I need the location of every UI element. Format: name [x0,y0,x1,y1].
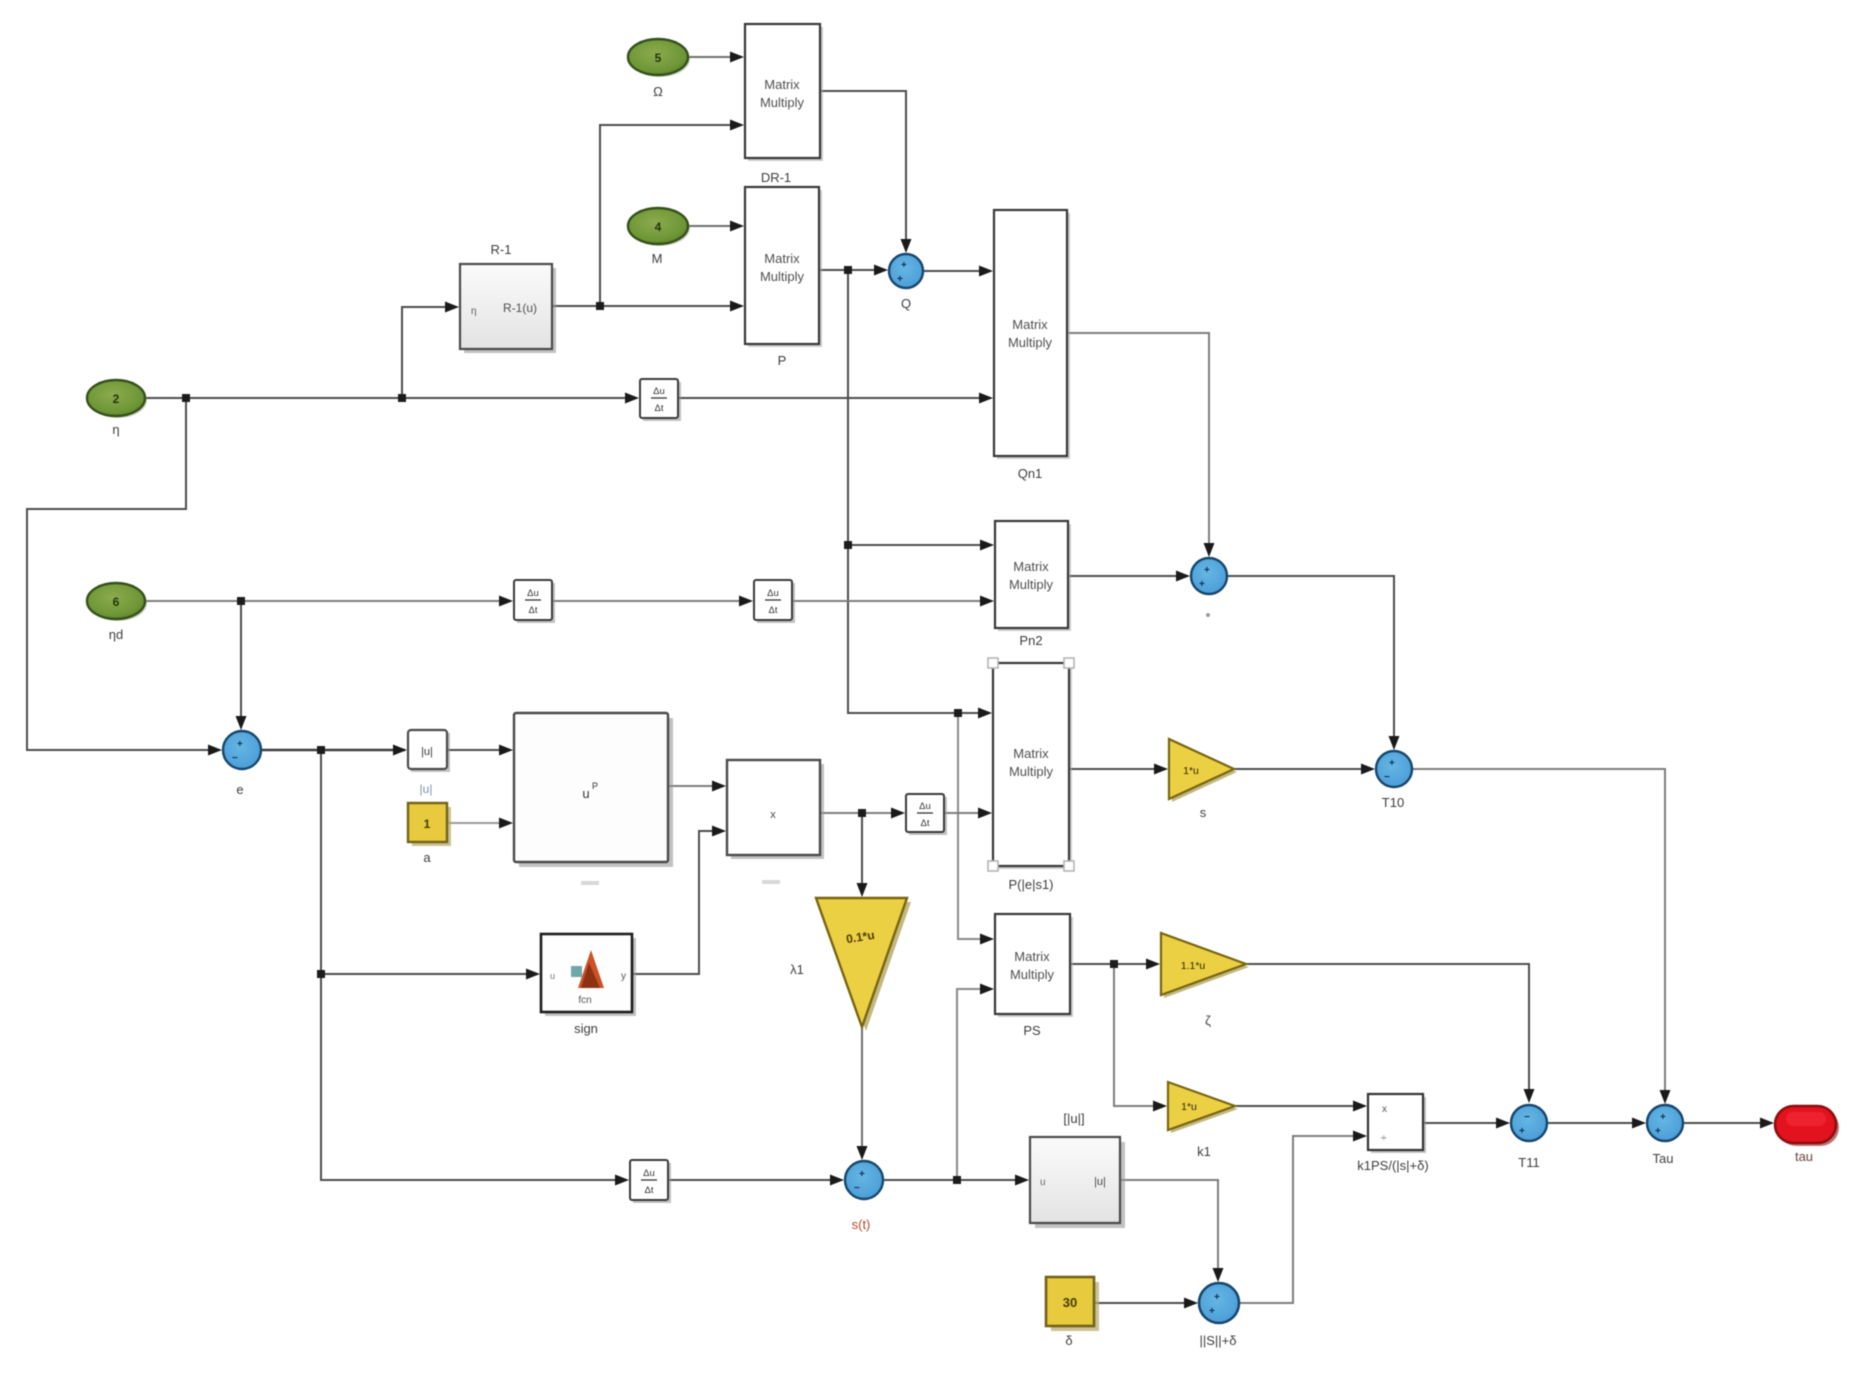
junction on etad line at branch to sum e [237,597,245,605]
svg-text:4: 4 [655,220,662,234]
svg-text:M: M [652,251,663,266]
junction at Pn2 in1 branch [844,541,852,549]
wire derivative to sum s(t) [668,1179,842,1181]
wire branch to Pn2 in1 [848,544,992,546]
svg-text:+: + [901,260,907,271]
svg-text:Δt: Δt [645,1185,654,1196]
sum T10 [1376,751,1412,810]
svg-text:Δt: Δt [655,403,664,414]
wire constant a to power block in2 [447,822,511,824]
svg-text:s(t): s(t) [852,1217,871,1232]
wire Pn2 output to small sum [1068,575,1188,577]
block constant a = 1 [408,803,451,865]
block derivative on e line [630,1160,671,1203]
svg-text:+: + [1519,1126,1525,1137]
wire eta derivative to Qn1 in2 [678,397,991,399]
junction on eta line at branch to sum e [182,394,190,402]
sum s(t) [845,1161,883,1232]
small sum after Pn2 [1191,558,1227,617]
wire gain s output to T10 [1234,768,1373,770]
block Pn2 matrix multiply [995,521,1071,648]
wire P output to sum Q [820,269,886,271]
svg-text:Multiply: Multiply [1010,967,1055,982]
wire product output to derivative [820,812,903,814]
svg-text:k1PS/(|s|+δ): k1PS/(|s|+δ) [1357,1158,1428,1173]
wire sum T11 output to sum Tau [1547,1122,1644,1124]
svg-text:Δu: Δu [527,588,539,599]
svg-text:+: + [1214,1292,1220,1303]
block derivative on eta line [640,379,681,421]
input port etad (6) [87,583,147,642]
svg-text:2: 2 [113,392,120,406]
junction at sign input branch [317,970,325,978]
wire sum Q output to Qn1 in1 [923,270,991,272]
wire sign output up to product in2 [632,831,724,974]
block P matrix multiply [745,187,822,368]
wire e branch down to derivative before s(t) [321,750,627,1180]
svg-text:fcn: fcn [578,995,591,1006]
block derivative etad 1 [514,580,555,623]
svg-text:PS: PS [1023,1023,1041,1038]
svg-text:s: s [1200,805,1207,820]
wire PS branch down to gain k1 [1114,964,1165,1106]
input port eta (2) [87,380,147,437]
wire sum Tau output to outport tau [1683,1122,1772,1124]
block product [727,760,824,884]
svg-text:1*u: 1*u [1181,1101,1197,1113]
wire R-1 output branch up to DR-1 in2 [600,125,742,306]
sum T11 [1511,1105,1547,1170]
svg-text:sign: sign [574,1021,598,1036]
wire derivative to P(|e|s1) in2 [944,812,990,814]
svg-text:−: − [1524,1112,1530,1123]
output port tau [1775,1106,1839,1164]
junction at PS in1 branch [954,709,962,717]
wire PS output to gain zeta [1070,963,1158,965]
svg-text:|u|: |u| [1094,1176,1106,1188]
svg-text:Δt: Δt [529,605,538,616]
junction on R-1 output at branch to DR-1 [596,302,604,310]
svg-text:+: + [1660,1112,1666,1123]
svg-text:+: + [1209,1306,1215,1317]
wire T10 output down to sum Tau top [1412,769,1665,1102]
svg-text:||S||+δ: ||S||+δ [1199,1333,1236,1348]
block PS matrix multiply [995,914,1073,1038]
svg-text:tau: tau [1795,1149,1813,1164]
svg-text:Matrix: Matrix [764,77,800,92]
svg-text:+: + [237,739,243,750]
wire sum s(t) output to abs subsystem [883,1179,1027,1181]
svg-text:P: P [778,353,787,368]
wire sum S+delta output up to divide in2 [1239,1136,1365,1303]
svg-text:R-1: R-1 [491,242,512,257]
svg-text:Matrix: Matrix [1013,559,1049,574]
input port Omega (5) [628,39,690,99]
svg-text:1*u: 1*u [1183,765,1199,777]
sum e [223,731,261,797]
svg-text:÷: ÷ [1381,1133,1387,1144]
svg-text:1: 1 [424,817,431,831]
svg-text:Δt: Δt [769,605,778,616]
svg-text:ηd: ηd [109,627,123,642]
svg-text:u: u [582,786,589,801]
svg-text:Δu: Δu [653,386,665,397]
svg-text:+: + [897,274,903,285]
block derivative etad 2 [754,580,795,623]
block constant delta = 30 [1046,1277,1099,1348]
wire etad branch down to sum e top [240,601,242,728]
gain zeta (1.1*u) [1161,933,1249,1028]
gain k1 (1*u) [1168,1082,1238,1159]
sum Q [889,254,923,311]
wire Qn1 output down to small sum top [1067,333,1209,555]
wire e branch down to sign input [321,973,538,975]
svg-text:+: + [1655,1126,1661,1137]
svg-text:e: e [236,782,243,797]
svg-text:Multiply: Multiply [1009,764,1054,779]
wire abs output to power block in1 [447,749,511,751]
svg-text:1.1*u: 1.1*u [1181,960,1206,972]
svg-text:u: u [1040,1177,1046,1188]
block DR-1 matrix multiply [745,24,823,185]
svg-text:Δt: Δt [921,818,930,829]
block abs subsystem [|u|] [1030,1111,1125,1228]
wire etad derivative2 to Pn2 in2 [792,600,992,602]
svg-text:P(|e|s1): P(|e|s1) [1008,877,1053,892]
junction on product output at lambda1 branch [858,809,866,817]
svg-text:−: − [854,1183,860,1194]
svg-text:Multiply: Multiply [1008,335,1053,350]
svg-text:T10: T10 [1382,795,1404,810]
svg-text:Δu: Δu [919,801,931,812]
block sign MATLAB function [541,934,636,1036]
svg-text:u: u [550,971,555,981]
block abs |u| [408,730,450,796]
svg-text:η: η [471,306,477,317]
wire etad main run to first derivative [145,600,511,602]
svg-text:Pn2: Pn2 [1019,633,1042,648]
wire junction down to gain lambda1 [861,813,863,895]
svg-text:5: 5 [655,51,662,65]
sum Tau [1647,1105,1683,1166]
svg-text:Q: Q [901,296,911,311]
junction on e output at down branch [317,746,325,754]
svg-text:|u|: |u| [420,782,433,796]
wire divide output to sum T11 [1423,1122,1508,1124]
svg-text:|u|: |u| [421,746,433,758]
svg-text:λ1: λ1 [790,962,804,977]
block Qn1 matrix multiply [994,210,1070,481]
junction on s(t) output at PS in2 branch [953,1176,961,1184]
svg-text:Matrix: Matrix [1013,746,1049,761]
svg-text:η: η [112,422,119,437]
wire eta main run to derivative [145,397,637,399]
svg-text:Qn1: Qn1 [1018,466,1043,481]
sum ||S||+delta [1199,1283,1239,1348]
svg-text:+: + [1199,579,1205,590]
wire small sum output down to T10 top [1227,576,1394,748]
svg-text:DR-1: DR-1 [761,170,791,185]
svg-text:+: + [859,1169,865,1180]
junction on PS output at k1 branch [1110,960,1118,968]
wire Omega to DR-1 in1 [688,56,742,58]
svg-text:Multiply: Multiply [760,95,805,110]
wire s branch up to PS in2 [957,989,992,1180]
svg-text:−: − [232,753,238,764]
block R-1 subsystem [460,242,556,353]
svg-text:δ: δ [1065,1333,1072,1348]
svg-text:[|u|]: [|u|] [1063,1111,1084,1126]
svg-text:ζ: ζ [1205,1013,1211,1028]
input port M (4) [628,208,690,266]
svg-text:x: x [1382,1104,1387,1115]
wire P output branch down vertical to Pn2 and P(|e|s1) [848,270,990,713]
svg-text:6: 6 [113,595,120,609]
wire P(|e|s1) output to gain s [1069,768,1166,770]
svg-text:P: P [592,781,598,791]
wire between etad derivatives [552,600,751,602]
svg-text:y: y [621,971,626,982]
wire abs subsystem output down to sum S+delta top [1120,1180,1218,1280]
svg-text:+: + [1389,758,1395,769]
block divide k1PS/(|s|+d) [1357,1094,1428,1173]
block P(|e|s1) matrix multiply (selected) [988,658,1074,892]
svg-text:k1: k1 [1197,1144,1211,1159]
gain s (1*u) [1169,739,1237,820]
svg-text:Ω: Ω [653,84,663,99]
wire gain k1 output to divide in1 [1235,1105,1365,1107]
svg-text:30: 30 [1063,1295,1077,1310]
svg-text:Δu: Δu [767,588,779,599]
svg-text:Multiply: Multiply [760,269,805,284]
svg-text:a: a [423,850,431,865]
wire eta branch down-left to sum e [27,398,220,750]
svg-text:Δu: Δu [643,1168,655,1179]
svg-text:x: x [770,809,776,821]
wire DR-1 output down to sum Q top [820,91,906,251]
junction on P output at vertical branch [844,266,852,274]
gain lambda1 (0.1*u pointing down) [790,898,911,1031]
wire R-1 output to P in2 [552,305,742,307]
wire branch down to PS in1 [958,713,992,939]
svg-text:T11: T11 [1518,1155,1539,1170]
wire gain lambda1 output down to sum s(t) [861,1027,863,1158]
wire gain zeta output down to sum T11 top [1246,964,1529,1101]
svg-text:Matrix: Matrix [1014,949,1050,964]
wire sum e output to abs [261,749,405,751]
svg-text:R-1(u): R-1(u) [503,301,537,315]
svg-text:Tau: Tau [1653,1151,1674,1166]
svg-text:+: + [1204,565,1210,576]
wire power block output to product in1 [668,785,724,787]
wire eta branch up to R-1 input [402,307,457,398]
block derivative after product [906,794,947,835]
svg-text:−: − [1384,772,1390,783]
wire constant 30 to sum S+delta [1094,1302,1196,1304]
junction on eta line at branch to R-1 [398,394,406,402]
svg-text:Multiply: Multiply [1009,577,1054,592]
svg-text:Matrix: Matrix [1012,317,1048,332]
svg-text:Matrix: Matrix [764,251,800,266]
block u power P [514,713,673,885]
wire M to P in1 [688,225,742,227]
